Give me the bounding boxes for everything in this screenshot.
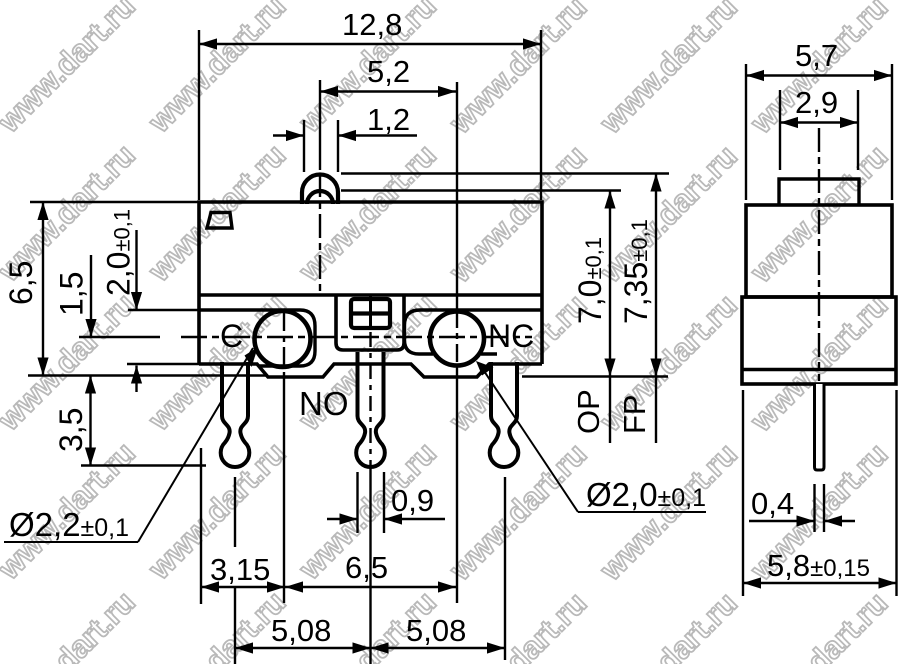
plunger button dome — [302, 175, 338, 205]
dim 12,8 — [199, 7, 541, 200]
hole C circle — [255, 311, 311, 367]
svg-text:6,5: 6,5 — [3, 261, 39, 305]
hole centerline horizontal — [181, 336, 532, 338]
svg-text:1,2: 1,2 — [367, 102, 410, 137]
leader Ø2,2±0,1 — [4, 347, 258, 543]
svg-text:FP: FP — [617, 394, 652, 434]
svg-text:5,7: 5,7 — [795, 38, 838, 73]
seating plane ext line — [522, 375, 668, 377]
dim 5,7 — [746, 38, 892, 200]
svg-text:OP: OP — [571, 389, 606, 434]
side view pin — [815, 384, 825, 470]
dim 7,35±0,1 — [618, 174, 662, 444]
dim 1,5 — [54, 255, 97, 337]
dim 6,5 left — [3, 202, 49, 376]
OP line — [341, 189, 621, 191]
side view centerline — [818, 128, 820, 381]
trapezoid mark top-left — [207, 213, 232, 229]
FP label — [617, 394, 652, 434]
svg-text:3,5: 3,5 — [53, 408, 89, 452]
svg-text:0,9: 0,9 — [391, 483, 434, 518]
terminal leg C (left) — [221, 362, 250, 467]
middle U notch — [336, 296, 404, 350]
svg-text:6,5: 6,5 — [345, 550, 388, 585]
dim 1,2 — [273, 102, 417, 172]
plunger centerline — [319, 173, 321, 296]
FP line — [341, 172, 669, 174]
NO leg centerline vertical — [369, 297, 372, 664]
NC hole chamber — [405, 310, 543, 354]
dim 5,08 left — [235, 613, 371, 654]
bottom extension lines — [201, 448, 505, 664]
side view body lower — [742, 297, 896, 384]
dim 3,5 — [53, 376, 96, 466]
dim 0,4 — [749, 484, 855, 532]
contact block rectangle — [351, 299, 390, 328]
svg-text:NO: NO — [299, 385, 349, 422]
svg-text:5,08: 5,08 — [271, 613, 331, 648]
label C — [220, 318, 243, 354]
extension lines left side — [28, 202, 268, 466]
body step line — [199, 293, 542, 297]
side view button — [779, 179, 859, 205]
svg-text:C: C — [220, 318, 243, 354]
dim 5,8±0,15 — [743, 390, 897, 596]
OP label — [571, 389, 606, 434]
dim 7,0±0,1 — [572, 191, 616, 444]
svg-text:5,08: 5,08 — [406, 613, 466, 648]
label NO — [299, 385, 349, 422]
svg-text:NC: NC — [488, 318, 534, 354]
dim 2,0±0,1 — [101, 209, 143, 392]
dim 2,9 — [780, 85, 858, 170]
svg-text:2,9: 2,9 — [795, 85, 838, 120]
svg-text:12,8: 12,8 — [342, 7, 402, 42]
body bottom profile with mounting bosses — [199, 364, 542, 377]
switch body outline (front view) — [199, 202, 542, 364]
dim 6,5 bottom — [285, 550, 456, 593]
NC hole centerline vertical — [456, 82, 458, 603]
leader Ø2,0±0,1 — [476, 361, 706, 513]
svg-text:5,2: 5,2 — [367, 54, 410, 89]
dim 5,08 right — [371, 613, 506, 654]
dim 5,2 — [320, 54, 456, 170]
hole NC circle — [430, 312, 484, 366]
terminal leg NO (middle) — [356, 352, 385, 467]
svg-text:3,15: 3,15 — [210, 552, 270, 587]
dim 3,15 — [201, 552, 285, 593]
svg-text:1,5: 1,5 — [54, 272, 90, 316]
svg-text:0,4: 0,4 — [751, 486, 794, 521]
C hole chamber — [199, 310, 315, 366]
label NC — [488, 318, 534, 354]
terminal leg NC (right) — [490, 362, 519, 467]
C hole centerline vertical — [283, 311, 285, 603]
dim 0,9 — [327, 472, 445, 533]
side view body upper — [746, 205, 892, 297]
